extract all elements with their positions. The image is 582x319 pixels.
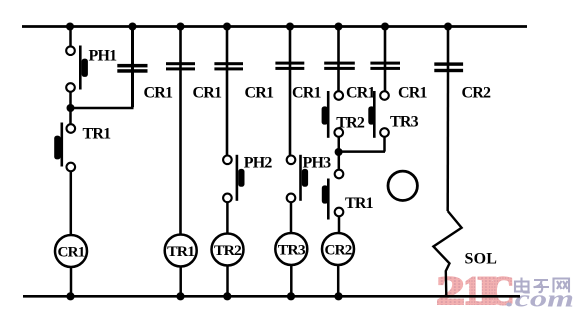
label CR1f — [398, 85, 428, 102]
svg-text:TR1: TR1 — [83, 126, 112, 143]
watermark 21IC logo — [436, 268, 515, 313]
wire: contact CR1e to TR2 contact — [337, 70, 340, 92]
relay coil CR2 — [322, 233, 354, 265]
wire: top rail to contact CR1e — [337, 27, 340, 70]
wire: rung1 top rail to PH1 — [69, 27, 72, 47]
NO contact CR1f — [370, 62, 400, 70]
svg-text:PH2: PH2 — [244, 155, 273, 172]
svg-text:.com: .com — [506, 287, 574, 313]
timer contact TR1 rung1 — [54, 123, 75, 172]
svg-text:SOL: SOL — [465, 251, 498, 268]
node: bottom rail junction dots — [66, 292, 342, 300]
bottom power rail — [23, 295, 520, 298]
watermark .com script — [506, 287, 574, 313]
wire: TR2 contact to node B — [338, 137, 341, 152]
solenoid SOL zigzag — [433, 211, 461, 296]
wire: contact CR1d to PH3 — [289, 70, 292, 156]
svg-text:CR2: CR2 — [462, 85, 492, 102]
svg-text:TR3: TR3 — [278, 243, 305, 259]
node B junction dot — [335, 148, 343, 156]
wire: node A to TR1 — [69, 108, 72, 124]
svg-text:TR1: TR1 — [345, 195, 374, 212]
NO contact CR1a (seal-in) — [117, 64, 147, 73]
label CR1d — [292, 85, 322, 102]
NO contact CR1b — [166, 62, 195, 70]
svg-text:CR1: CR1 — [58, 245, 85, 261]
svg-text:CR1: CR1 — [193, 85, 223, 102]
label TR3 contact — [390, 114, 419, 131]
wire: coil CR1 to bottom rail — [70, 267, 73, 296]
wire: top rail to contact CR1a — [131, 27, 134, 73]
label CR1c — [245, 85, 275, 102]
wire: top rail to contact CR2 — [447, 27, 450, 73]
timer coil TR1 — [165, 235, 197, 267]
svg-text:PH1: PH1 — [89, 48, 118, 65]
wire: contact CR1c to PH2 — [226, 70, 229, 155]
label CR1b — [193, 85, 223, 102]
svg-text:PH3: PH3 — [303, 155, 332, 172]
svg-text:CR1: CR1 — [292, 85, 322, 102]
wire: contact CR1f to TR3 contact — [384, 70, 387, 92]
wire: top rail to contact CR1d — [289, 27, 292, 70]
wire: top rail to contact CR1c — [226, 27, 229, 71]
label CR1e — [346, 85, 376, 102]
pushbutton PH2 — [223, 155, 244, 202]
svg-text:TR2: TR2 — [214, 243, 241, 259]
wire: top rail to contact CR1f — [384, 27, 387, 70]
label PH3 — [303, 155, 332, 172]
wire: TR1 contact to coil CR2 — [338, 216, 341, 233]
svg-text:2: 2 — [436, 269, 465, 313]
node: top rail junction dots — [66, 23, 452, 31]
watermark chinese characters dian zi wang — [515, 278, 569, 293]
wire: coil TR1 to bottom rail — [179, 266, 182, 296]
wire: coil CR2 to bottom rail — [337, 265, 340, 297]
wire: PH1 to node A — [69, 92, 72, 108]
label CR2 contact — [462, 85, 492, 102]
timer coil TR3 — [275, 233, 307, 265]
svg-text:CR2: CR2 — [325, 243, 352, 259]
node A junction dot — [67, 104, 75, 112]
wire: TR1 to coil CR1 — [70, 171, 73, 235]
svg-text:TR1: TR1 — [167, 244, 194, 260]
svg-text:CR1: CR1 — [245, 85, 275, 102]
svg-text:TR2: TR2 — [336, 115, 365, 132]
wire: seal-in branch link at y108 — [71, 107, 134, 110]
relay coil CR1 — [55, 235, 87, 267]
svg-text:CR1: CR1 — [144, 85, 174, 102]
label TR1 — [83, 126, 112, 143]
wire: coil TR3 to bottom rail — [290, 265, 293, 296]
label TR1 second contact — [345, 195, 374, 212]
wire: PH3 to coil TR3 — [290, 202, 293, 233]
label PH1 — [89, 48, 118, 65]
wire: PH2 to coil TR2 — [226, 202, 229, 234]
pushbutton PH3 — [287, 155, 308, 202]
wire: top rail to contact CR1b — [179, 27, 182, 71]
wire: node B to TR1 contact — [338, 152, 341, 170]
NO contact CR1e — [324, 62, 355, 70]
NO contact CR2 — [434, 62, 463, 72]
label PH2 — [244, 155, 273, 172]
top power rail — [22, 25, 527, 28]
wire: TR3 contact down to link — [383, 137, 386, 152]
timer contact TR1 (second) — [322, 170, 344, 220]
NO contact CR1c — [214, 62, 243, 70]
wire: coil TR2 to bottom rail — [226, 265, 229, 296]
timer contact TR3 — [368, 91, 389, 138]
svg-text:CR1: CR1 — [398, 85, 428, 102]
NO contact CR1d — [275, 62, 304, 70]
wire: contact CR1b to coil TR1 — [179, 70, 182, 235]
indicator circle (pilot) — [388, 171, 417, 200]
pushbutton PH1 — [66, 46, 88, 92]
wire: node B link to TR3 branch at y151.6 — [339, 150, 385, 153]
label CR1a — [144, 85, 174, 102]
wire: contact CR1a down to link — [131, 73, 134, 108]
label TR2 contact — [336, 115, 365, 132]
timer coil TR2 — [212, 234, 244, 266]
svg-text:CR1: CR1 — [346, 85, 376, 102]
svg-text:TR3: TR3 — [390, 114, 419, 131]
wire: contact CR2 down to solenoid — [446, 72, 449, 211]
label SOL — [465, 251, 498, 268]
timer contact TR2 — [322, 91, 343, 138]
